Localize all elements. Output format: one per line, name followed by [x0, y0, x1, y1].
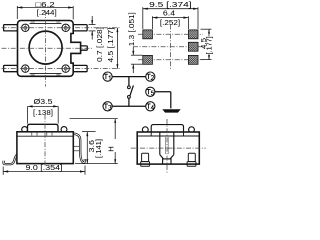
svg-text:[.244]: [.244] — [37, 8, 57, 17]
svg-text:9.0 [.354]: 9.0 [.354] — [26, 163, 63, 172]
svg-text:[.138]: [.138] — [33, 108, 53, 117]
svg-text:0.7 [.028]: 0.7 [.028] — [97, 27, 104, 62]
svg-text:H: H — [107, 146, 116, 151]
svg-text:[.177]: [.177] — [207, 36, 214, 54]
svg-text:4.5 [.177]: 4.5 [.177] — [108, 27, 115, 62]
svg-text:1.3 [.051]: 1.3 [.051] — [129, 12, 136, 46]
svg-text:[.141]: [.141] — [96, 139, 103, 158]
svg-text:[.252]: [.252] — [160, 18, 180, 27]
svg-text:Ø3.5: Ø3.5 — [34, 97, 53, 106]
svg-text:6.4: 6.4 — [163, 9, 175, 18]
